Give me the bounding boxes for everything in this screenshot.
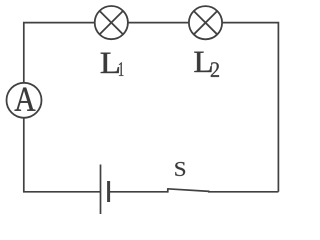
lamp L2	[189, 6, 222, 39]
label L1	[101, 53, 124, 76]
ammeter A	[7, 83, 42, 118]
lamp L1	[95, 6, 128, 39]
wire	[24, 118, 100, 192]
wire	[222, 23, 278, 192]
battery	[101, 165, 109, 215]
wire	[128, 22, 188, 24]
wire	[24, 23, 95, 83]
wire	[109, 191, 168, 193]
switch S	[167, 188, 209, 192]
wire	[208, 191, 278, 193]
label S	[175, 162, 185, 176]
label L2	[194, 52, 219, 77]
